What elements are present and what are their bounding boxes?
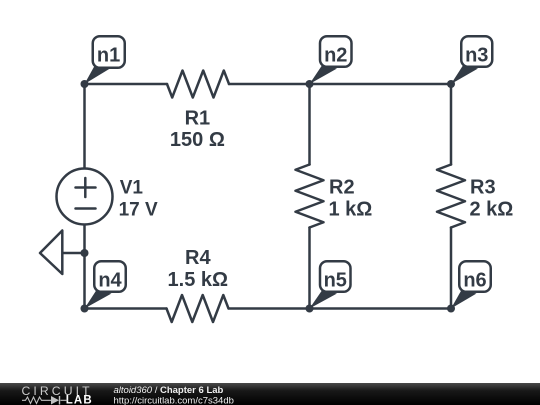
svg-text:n6: n6 — [463, 269, 486, 291]
svg-text:150 Ω: 150 Ω — [170, 129, 225, 151]
svg-text:LAB: LAB — [66, 394, 93, 405]
svg-text:1 kΩ: 1 kΩ — [329, 199, 373, 221]
svg-text:V1: V1 — [120, 178, 144, 199]
svg-text:R2: R2 — [329, 177, 355, 199]
svg-text:2 kΩ: 2 kΩ — [470, 199, 514, 221]
svg-text:n4: n4 — [98, 269, 122, 291]
svg-text:R1: R1 — [185, 107, 211, 129]
svg-text:n1: n1 — [97, 44, 120, 66]
svg-text:17 V: 17 V — [119, 200, 158, 221]
svg-text:n3: n3 — [465, 44, 488, 66]
svg-text:R3: R3 — [470, 177, 496, 199]
svg-text:n2: n2 — [324, 44, 347, 66]
svg-text:n5: n5 — [324, 269, 347, 291]
svg-text:R4: R4 — [185, 247, 211, 269]
svg-text:1.5 kΩ: 1.5 kΩ — [168, 269, 229, 291]
svg-text:http://circuitlab.com/c7s34db: http://circuitlab.com/c7s34db — [114, 396, 234, 405]
svg-text:altoid360 / Chapter 6 Lab: altoid360 / Chapter 6 Lab — [114, 385, 224, 396]
